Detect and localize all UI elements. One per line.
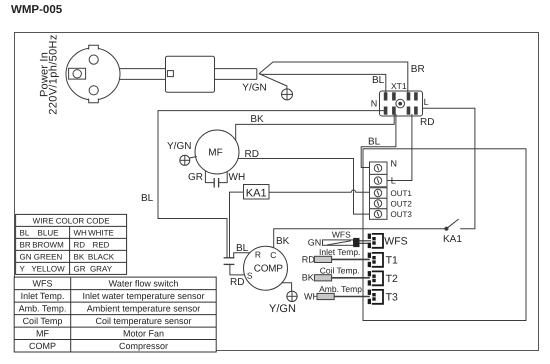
wire BR split to XT1 — [259, 62, 408, 94]
svg-text:WH: WH — [229, 172, 246, 183]
svg-text:Ambient temperature sensor: Ambient temperature sensor — [87, 304, 201, 314]
sensor T2 coil temperature — [314, 275, 369, 281]
svg-text:T3: T3 — [386, 292, 398, 304]
svg-text:BL: BL — [20, 228, 30, 237]
svg-text:Coil Temp.: Coil Temp. — [320, 265, 360, 275]
connector T3 — [368, 290, 383, 304]
terminal strip L — [370, 174, 388, 186]
sensor T1 inlet temperature — [314, 256, 369, 262]
svg-text:Y/GN: Y/GN — [242, 83, 266, 94]
svg-text:BL: BL — [141, 193, 154, 204]
terminal strip N — [370, 162, 388, 174]
terminal OUT2 — [370, 198, 388, 209]
svg-text:BL: BL — [236, 243, 249, 254]
label Power In 220V/1ph/50Hz — [39, 34, 60, 114]
svg-text:BL: BL — [372, 75, 385, 86]
svg-text:T1: T1 — [386, 255, 398, 267]
svg-text:MF: MF — [36, 329, 49, 339]
svg-text:Y/GN: Y/GN — [269, 303, 296, 315]
sensor T3 ambient temperature — [317, 293, 370, 299]
svg-text:L: L — [424, 97, 429, 107]
controller inner box — [363, 149, 526, 321]
svg-text:BLACK: BLACK — [88, 252, 115, 261]
svg-text:Y: Y — [20, 264, 26, 273]
svg-text:BROWM: BROWM — [32, 240, 64, 249]
svg-text:GR: GR — [74, 264, 86, 273]
svg-text:Inlet Temp.: Inlet Temp. — [21, 291, 65, 301]
wire BL split to XT1 — [259, 74, 386, 94]
svg-text:WIRE COLOR CODE: WIRE COLOR CODE — [33, 216, 110, 225]
connector T1 — [368, 253, 383, 267]
relay contact KA1 — [445, 219, 459, 230]
wire KA1 coil to OUT1 with hop — [269, 190, 374, 192]
svg-text:220V/1ph/50Hz: 220V/1ph/50Hz — [47, 34, 59, 114]
terminal block XT1 — [380, 91, 423, 116]
svg-text:OUT1: OUT1 — [391, 189, 413, 198]
svg-text:RD: RD — [245, 149, 259, 160]
wire cable filter box to split — [215, 69, 257, 80]
svg-text:RD: RD — [302, 254, 315, 264]
svg-text:RD: RD — [74, 240, 86, 249]
svg-text:Water flow switch: Water flow switch — [109, 279, 179, 289]
wire KA1 coil to compressor capacitor — [230, 192, 244, 258]
table wire color code — [16, 214, 127, 274]
svg-text:WMP-005: WMP-005 — [11, 4, 63, 16]
table legend — [14, 277, 216, 352]
plug P1 top hole — [89, 55, 98, 64]
svg-text:RD: RD — [230, 277, 244, 288]
svg-text:KA1: KA1 — [246, 188, 267, 200]
svg-text:BLUE: BLUE — [38, 228, 59, 237]
wire capacitor to R — [234, 253, 250, 258]
sensor WFS water flow switch — [323, 238, 372, 247]
svg-text:GN: GN — [20, 252, 32, 261]
ground earth symbol COMP — [287, 291, 297, 301]
svg-text:Amb. Temp.: Amb. Temp. — [319, 284, 364, 294]
svg-text:WFS: WFS — [332, 229, 351, 239]
svg-text:Inlet Temp.: Inlet Temp. — [319, 247, 360, 257]
motor fan MF — [195, 130, 239, 174]
svg-text:WFS: WFS — [33, 279, 53, 289]
connector T2 — [368, 271, 383, 285]
svg-text:N: N — [371, 98, 378, 108]
svg-text:N: N — [391, 159, 398, 169]
connector WFS — [368, 234, 383, 248]
svg-text:R: R — [255, 249, 261, 259]
svg-text:OUT2: OUT2 — [391, 199, 413, 208]
svg-text:Coil Temp: Coil Temp — [23, 316, 63, 326]
svg-text:C: C — [270, 250, 276, 260]
svg-text:RED: RED — [93, 240, 110, 249]
wire capacitor to S — [230, 264, 245, 275]
svg-text:S: S — [247, 271, 253, 281]
wire COMP earth link — [282, 283, 292, 292]
wire XT1 L pin to terminal L — [382, 114, 412, 181]
svg-text:KA1: KA1 — [443, 234, 462, 245]
plug P1 side contact — [69, 68, 86, 79]
wire XT1 L to KA1 contact — [423, 108, 475, 229]
wire BK MF to XT1 — [236, 114, 395, 144]
svg-text:Amb. Temp.: Amb. Temp. — [19, 304, 67, 314]
svg-text:WFS: WFS — [384, 236, 407, 248]
wire C to KA1 contact — [274, 229, 447, 248]
wire earth lead at split — [259, 74, 287, 89]
wire MF earth link — [190, 157, 197, 159]
svg-text:MF: MF — [208, 148, 222, 159]
svg-text:T2: T2 — [386, 273, 398, 285]
wire BL XT1 pin to terminal N — [361, 114, 396, 168]
capacitor C-MF plates — [214, 178, 218, 188]
relay coil KA1 box — [244, 185, 270, 200]
svg-text:COMP: COMP — [254, 264, 283, 275]
plug P1 bottom hole — [89, 86, 98, 95]
filter box FL1 — [166, 56, 215, 92]
ground earth symbol power — [282, 89, 293, 100]
svg-text:Compressor: Compressor — [119, 341, 168, 351]
svg-text:BL: BL — [368, 137, 381, 148]
svg-text:WH: WH — [74, 228, 88, 237]
svg-text:COMP: COMP — [29, 341, 56, 351]
svg-text:OUT3: OUT3 — [391, 210, 413, 219]
terminal OUT1 — [370, 188, 388, 199]
svg-text:BR: BR — [411, 64, 425, 75]
svg-text:BR: BR — [20, 240, 31, 249]
svg-text:XT1: XT1 — [391, 81, 407, 91]
svg-text:Y/GN: Y/GN — [167, 141, 191, 152]
svg-text:GREEN: GREEN — [34, 252, 63, 261]
svg-text:Coil temperature sensor: Coil temperature sensor — [95, 316, 191, 326]
svg-text:BK: BK — [276, 236, 290, 247]
svg-text:YELLOW: YELLOW — [31, 264, 65, 273]
capacitor C-COMP plates — [224, 258, 235, 265]
svg-text:BK: BK — [302, 273, 314, 283]
svg-text:Inlet water temperature sensor: Inlet water temperature sensor — [82, 291, 204, 301]
terminal OUT3 — [370, 209, 388, 220]
svg-text:GRAY: GRAY — [90, 264, 113, 273]
compressor COMP — [244, 246, 288, 290]
svg-text:RD: RD — [420, 117, 434, 128]
ground earth symbol MF — [180, 155, 190, 165]
svg-text:GR: GR — [188, 172, 203, 183]
capacitor C-MF legs — [205, 171, 227, 183]
wire cable plug to filter box — [120, 69, 166, 80]
svg-text:BK: BK — [250, 114, 264, 125]
wire RD MF to OUT3 — [238, 159, 374, 215]
svg-text:WHITE: WHITE — [88, 228, 114, 237]
wire neutral rail XT1 to compressor capacitor — [158, 111, 386, 258]
plug P1 body — [66, 45, 120, 103]
svg-text:BK: BK — [74, 252, 85, 261]
svg-text:Motor Fan: Motor Fan — [123, 329, 164, 339]
svg-text:L: L — [391, 175, 396, 185]
